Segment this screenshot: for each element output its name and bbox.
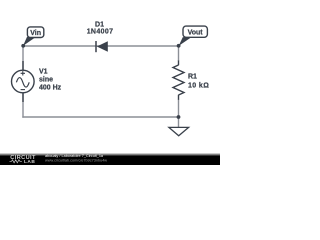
- resistor R1 lead bottom: [178, 95, 180, 100]
- wire ground stub: [178, 117, 180, 127]
- node Vout callout pointer: [179, 37, 192, 46]
- voltage source V1 plus sign: [21, 71, 25, 75]
- svg-text:sine: sine: [39, 77, 53, 84]
- watermark bar background: [0, 153, 220, 165]
- diode D1 triangle (anode arrow pointing left): [97, 41, 108, 51]
- node Vin callout pointer: [23, 37, 36, 46]
- svg-text:10 kΩ: 10 kΩ: [188, 83, 209, 90]
- voltage source V1 sine wave: [16, 78, 29, 88]
- voltage source V1 lead top: [22, 61, 24, 71]
- voltage source V1 circle body: [11, 70, 34, 93]
- wire right vertical (Vout corner down to R1 top): [178, 45, 180, 61]
- node Vout junction dot: [177, 44, 181, 48]
- node Vout callout box: [183, 26, 207, 37]
- diode D1 cathode bar: [95, 41, 97, 52]
- wire left vertical (V1 bottom down to bottom rail): [22, 93, 24, 118]
- svg-text:Vout: Vout: [188, 29, 204, 36]
- svg-text:Vin: Vin: [30, 30, 41, 37]
- resistor R1 lead top: [178, 61, 180, 66]
- svg-text:LAB: LAB: [24, 159, 35, 165]
- wire top (node Vin to diode to node Vout): [23, 45, 179, 47]
- ground symbol triangle: [169, 127, 189, 135]
- wire left vertical (Vin corner down to V1 top): [22, 45, 24, 70]
- node Vin junction dot: [21, 44, 25, 48]
- svg-text:V1: V1: [39, 69, 48, 76]
- wire right vertical (R1 bottom to junction): [178, 100, 180, 118]
- resistor R1 zigzag body: [173, 65, 184, 95]
- svg-text:400 Hz: 400 Hz: [39, 84, 62, 91]
- svg-text:R1: R1: [188, 74, 197, 81]
- svg-text:www.circuitlab.com/c/e7b9c73nb: www.circuitlab.com/c/e7b9c73nbu4w: [45, 158, 107, 162]
- watermark logo resistor zigzag: [10, 160, 22, 163]
- wire bottom rail: [22, 116, 178, 118]
- svg-text:D1: D1: [95, 21, 104, 28]
- junction node dot (R1 / ground / bottom rail): [177, 115, 181, 119]
- node Vin callout box: [27, 27, 43, 38]
- voltage source V1 minus sign: [21, 89, 25, 91]
- svg-text:1N4007: 1N4007: [87, 29, 114, 36]
- voltage source V1 lead bottom: [22, 93, 24, 103]
